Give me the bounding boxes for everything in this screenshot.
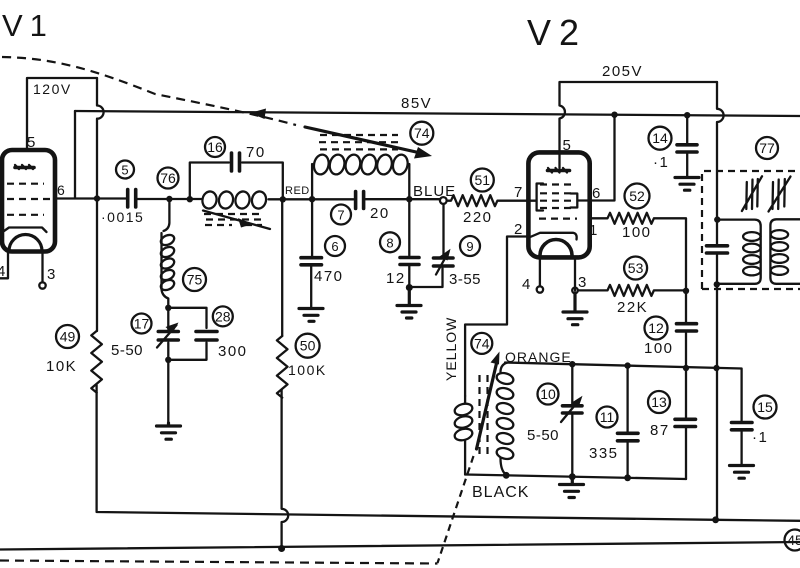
capacitor C9 3-55 (variable) plates	[434, 258, 454, 266]
dashed box transformer 77	[702, 171, 800, 289]
svg-text:75: 75	[187, 272, 203, 288]
svg-text:BLACK: BLACK	[472, 484, 529, 501]
ground under C8	[397, 288, 421, 319]
ground under C10	[560, 477, 584, 498]
svg-text:49: 49	[60, 329, 76, 345]
svg-text:·1: ·1	[653, 154, 669, 171]
ref circle 28	[213, 306, 233, 326]
V1 pin 3 lead	[39, 252, 45, 289]
output section bottom wire	[465, 475, 686, 480]
wire C7 to BLUE node	[366, 198, 441, 200]
svg-text:470: 470	[314, 268, 344, 285]
junction dot B+ riser bottom of 77	[714, 281, 720, 287]
svg-text:205V: 205V	[602, 63, 643, 80]
value 87	[650, 422, 670, 439]
capacitor C16 70 plates	[232, 153, 240, 171]
value 22K	[617, 299, 648, 316]
label BLUE	[413, 183, 456, 200]
ref circle 49	[56, 325, 79, 348]
tuning arrow into IF coil 74	[305, 127, 432, 159]
junction dot R53 right	[683, 288, 689, 294]
L76 adjustable core dashes	[204, 214, 264, 225]
transformer 74 core dashes (vertical)	[480, 375, 488, 455]
V1 cathode	[4, 228, 47, 233]
label ORANGE	[505, 349, 572, 365]
svg-text:20: 20	[370, 205, 390, 222]
svg-text:3-55: 3-55	[449, 271, 481, 288]
capacitor C17 5-50 (variable) plates	[158, 332, 178, 341]
value 100 (R52)	[622, 224, 652, 241]
capacitor C11 335 branch	[618, 366, 639, 478]
svg-text:52: 52	[629, 188, 645, 204]
IF transformer 74 primary left leg	[311, 164, 313, 199]
svg-text:11: 11	[600, 409, 615, 425]
ref circle 52	[625, 184, 650, 209]
ref circle 15	[754, 396, 777, 419]
value 100 (C12)	[644, 340, 674, 357]
ref circle 5	[116, 161, 134, 179]
junction dot main bus / grid wire	[94, 195, 100, 201]
C17 adjust arrow	[157, 323, 179, 348]
svg-text:7: 7	[337, 208, 344, 223]
ground under C14	[675, 178, 699, 191]
capacitor C15 .1	[732, 423, 753, 465]
svg-text:10: 10	[540, 386, 556, 402]
pin label 3 (V1)	[47, 266, 55, 283]
ref circle 74 (output transformer)	[471, 333, 492, 354]
svg-text:76: 76	[160, 170, 176, 186]
svg-text:51: 51	[475, 172, 491, 188]
svg-text:14: 14	[652, 130, 668, 146]
value 5-50 (C10)	[527, 427, 559, 444]
svg-text:12: 12	[648, 320, 664, 336]
svg-text:87: 87	[650, 422, 670, 439]
ref circle 45	[785, 530, 800, 551]
label V1	[2, 8, 54, 43]
capacitor C10 5-50 (variable) branch	[563, 364, 583, 477]
svg-text:100K: 100K	[288, 362, 327, 378]
capacitor C13 87 branch	[675, 368, 696, 479]
label 85V	[401, 95, 432, 112]
svg-text:5: 5	[27, 134, 35, 151]
V1 pin 6 wire and riser to 85V line	[55, 111, 97, 199]
terminal circle (BLUE test point)	[440, 197, 447, 204]
svg-text:·0015: ·0015	[101, 209, 144, 225]
ground under C15	[730, 466, 754, 479]
capacitor C14 .1	[677, 115, 697, 176]
junction dot C13 top	[683, 365, 689, 371]
ref circle 6	[325, 236, 345, 256]
bottom dashed line	[0, 561, 438, 564]
C9 adjust arrow	[436, 249, 451, 275]
ground under C17/C28	[157, 423, 181, 439]
ref circle 74 (top)	[410, 122, 433, 145]
junction dot RED node	[280, 196, 286, 202]
pin label 4 (V1)	[0, 263, 5, 280]
svg-text:5-50: 5-50	[527, 427, 559, 444]
svg-text:10K: 10K	[46, 358, 77, 375]
svg-text:7: 7	[514, 184, 522, 201]
svg-text:74: 74	[474, 335, 490, 351]
74 core dashes	[319, 135, 399, 149]
junction dot on bottom bus	[278, 545, 285, 552]
svg-text:12: 12	[386, 270, 406, 287]
junction dot C8 ground node	[406, 284, 413, 291]
arrowhead on dashed indicator at 85V line	[250, 109, 266, 120]
value 70	[246, 144, 266, 161]
pin label 2 (V2)	[514, 221, 522, 238]
ref circle 17	[132, 314, 152, 334]
ORANGE wire	[505, 363, 742, 421]
coil L76 (oscillator coil) loops	[201, 190, 268, 210]
R50 lower lead with hop over mid bus, to bottom bus	[282, 390, 289, 548]
capacitor C12 100	[677, 291, 697, 368]
transformer 74 primary coil (yellow side)	[453, 396, 473, 475]
junction dot C17/C28 top	[165, 305, 171, 311]
V2 pin2 wire to output transformer	[465, 237, 528, 397]
junction dots C11	[624, 362, 631, 481]
value 10K	[46, 358, 77, 375]
77 core slashes group 2	[769, 177, 791, 212]
pin label 6 (V1)	[57, 182, 65, 198]
value 220	[463, 209, 493, 226]
value .0015	[101, 209, 144, 225]
svg-text:120V: 120V	[33, 81, 72, 97]
svg-text:YELLOW: YELLOW	[443, 317, 459, 381]
IF transformer 74 primary coil	[312, 153, 409, 176]
svg-text:6: 6	[331, 239, 338, 254]
svg-text:77: 77	[759, 140, 775, 156]
value 100K	[288, 362, 327, 378]
ref circle 7	[331, 205, 351, 225]
capacitor C28 300 plates	[196, 332, 217, 341]
V2 plate bar	[548, 168, 570, 173]
ref circle 76	[158, 168, 179, 189]
V1 pin 4 lead	[0, 252, 8, 279]
74 primary right leg	[408, 164, 410, 199]
pin label 5 (V2)	[563, 137, 571, 154]
svg-text:50: 50	[300, 338, 316, 354]
V2 pin6 riser to 85V	[590, 115, 615, 200]
tube V2 envelope	[528, 152, 589, 257]
junction dot C16 loop left	[187, 196, 193, 202]
77 core slashes group 1	[742, 176, 762, 211]
V2 pin4 lead	[537, 258, 543, 293]
value 470	[314, 268, 344, 285]
ref circle 75	[183, 268, 206, 291]
pin label 4 (V2)	[522, 276, 530, 293]
value 3-55	[449, 271, 481, 288]
svg-text:6: 6	[57, 182, 65, 198]
svg-text:300: 300	[218, 343, 248, 360]
junction dot node B (74 sec / C8)	[406, 196, 412, 202]
resistor R51 220	[447, 195, 528, 206]
label V2	[527, 12, 587, 53]
svg-text:8: 8	[386, 235, 393, 250]
svg-text:15: 15	[757, 399, 773, 415]
wire C5 to node	[138, 198, 202, 200]
svg-text:3: 3	[47, 266, 55, 283]
svg-text:·1: ·1	[752, 429, 768, 446]
ref circle 12	[645, 317, 668, 340]
value 300	[218, 343, 248, 360]
V1 heater dome	[9, 235, 42, 251]
value .1 (C15)	[752, 429, 768, 446]
RED node vertical drop to R50	[281, 199, 283, 336]
svg-text:V2: V2	[527, 12, 587, 53]
V1 plate bar	[15, 165, 34, 169]
junction dot node A (74 pri / C6)	[309, 196, 315, 202]
svg-text:BLUE: BLUE	[413, 183, 456, 200]
svg-text:70: 70	[246, 144, 266, 161]
resistor R50 100K (vertical zigzag)	[277, 336, 288, 398]
svg-text:53: 53	[628, 260, 644, 276]
ref circle 10	[538, 384, 559, 405]
pin label 3 (V2)	[578, 274, 586, 291]
value 335	[589, 445, 619, 462]
junction dot coil75 tap	[166, 196, 172, 202]
svg-text:45: 45	[787, 532, 800, 548]
capacitor C6 470 branch	[301, 199, 322, 307]
V2 grid dashes	[539, 185, 577, 219]
junction dot C14 on 85V	[684, 112, 690, 118]
junction dots C10	[569, 361, 576, 480]
value 5-50 (C17)	[111, 342, 143, 359]
svg-text:74: 74	[414, 125, 430, 141]
svg-text:5: 5	[563, 137, 571, 154]
junction dot ORANGE / B+ riser	[713, 365, 719, 371]
V2 grid bracket pin7	[528, 184, 543, 211]
V2 pin1 wire + resistor R52 100	[590, 213, 686, 289]
svg-text:1: 1	[589, 222, 597, 239]
svg-text:5-50: 5-50	[111, 342, 143, 359]
C17/C28 parallel loop wires	[168, 308, 206, 423]
junction dot secondary bottom	[503, 472, 510, 479]
tube V1 envelope	[2, 150, 55, 252]
label 120V	[33, 81, 72, 97]
C10 adjust arrow	[561, 396, 583, 422]
C9 top lead to terminal	[442, 204, 444, 256]
svg-text:28: 28	[215, 308, 231, 324]
svg-text:22K: 22K	[617, 299, 648, 316]
pin label 6 (V2)	[592, 185, 600, 202]
svg-text:100: 100	[622, 224, 652, 241]
ground under V2 pin3	[563, 293, 587, 325]
77 primary coil	[717, 220, 761, 284]
V1 grid dashes	[7, 184, 50, 215]
pin label 1 (V2)	[589, 222, 597, 239]
77 secondary coil	[770, 219, 800, 283]
capacitor C5 .0015 plates	[128, 190, 136, 208]
svg-text:100: 100	[644, 340, 674, 357]
ref circle 50	[296, 334, 320, 358]
label RED	[285, 185, 310, 197]
value .1 (C14)	[653, 154, 669, 171]
label 205V	[602, 63, 643, 80]
label YELLOW	[443, 317, 459, 381]
ganged-tuning dashed indicator line (top left)	[2, 57, 296, 125]
ref circle 8	[380, 232, 400, 252]
junction dot pin6 riser on 85V	[611, 112, 617, 118]
V2 pin3 lead and node	[572, 258, 578, 294]
capacitor C7 20 plates	[356, 192, 364, 209]
wire grid line to C5	[97, 197, 126, 199]
wire node76 to RED node	[269, 198, 354, 200]
ref circle 14	[649, 127, 672, 150]
ref circle 51	[471, 169, 494, 192]
V2 plate lead inside	[558, 154, 560, 168]
svg-text:16: 16	[207, 139, 223, 155]
junction dot C17/C28 bottom	[165, 357, 171, 363]
ref circle 53	[624, 257, 647, 280]
transformer 74 core adjust arrow	[477, 352, 500, 450]
svg-text:4: 4	[522, 276, 530, 293]
resistor R49 10K (vertical zigzag)	[91, 331, 102, 393]
svg-text:13: 13	[651, 394, 667, 410]
ref circle 77	[756, 137, 778, 159]
svg-text:17: 17	[134, 316, 150, 332]
V2 cathode	[529, 233, 577, 240]
V2 heater dome	[540, 240, 572, 256]
205V supply line	[560, 82, 718, 154]
label BLACK	[472, 484, 529, 501]
pin label 5 (V1)	[27, 134, 35, 151]
dashed BLACK lead indicator	[438, 456, 474, 563]
ref circle 11	[597, 407, 618, 428]
value 12	[386, 270, 406, 287]
transformer 74 secondary coil	[495, 363, 514, 475]
85V line	[75, 111, 800, 116]
V2 screen bracket pin6	[571, 194, 590, 208]
capacitor C8 12 branch	[400, 199, 443, 287]
svg-text:9: 9	[466, 239, 473, 254]
left long vertical bus with hop over 85V line	[97, 78, 104, 331]
ref circle 9	[460, 236, 480, 256]
svg-text:4: 4	[0, 263, 5, 280]
svg-text:335: 335	[589, 445, 619, 462]
ref circle 16	[205, 137, 225, 157]
B+ riser (right vertical) with hop over 85V	[717, 82, 724, 520]
svg-text:V1: V1	[2, 8, 54, 43]
ground under C6	[299, 309, 323, 322]
resistor R53 22K	[578, 285, 686, 296]
bottom ground bus	[0, 542, 800, 550]
svg-text:220: 220	[463, 209, 493, 226]
coil L75	[159, 199, 176, 307]
svg-text:RED: RED	[285, 185, 310, 197]
ref circle 13	[648, 391, 670, 413]
C16/70 parallel loop wires	[190, 163, 283, 200]
L76 core adjust arrow	[203, 211, 270, 230]
V1 pin 5 lead + 120V box left	[27, 78, 97, 150]
left bus lower section down to bottom wire	[97, 385, 800, 521]
value 20	[370, 205, 390, 222]
junction dot B+ riser at bottom bus	[712, 516, 719, 523]
svg-text:85V: 85V	[401, 95, 432, 112]
capacitor inside 77	[707, 246, 728, 253]
svg-text:3: 3	[578, 274, 586, 291]
junction dot B+ riser top of 77	[714, 216, 720, 222]
svg-text:5: 5	[121, 163, 128, 178]
pin label 7 (V2)	[514, 184, 522, 201]
